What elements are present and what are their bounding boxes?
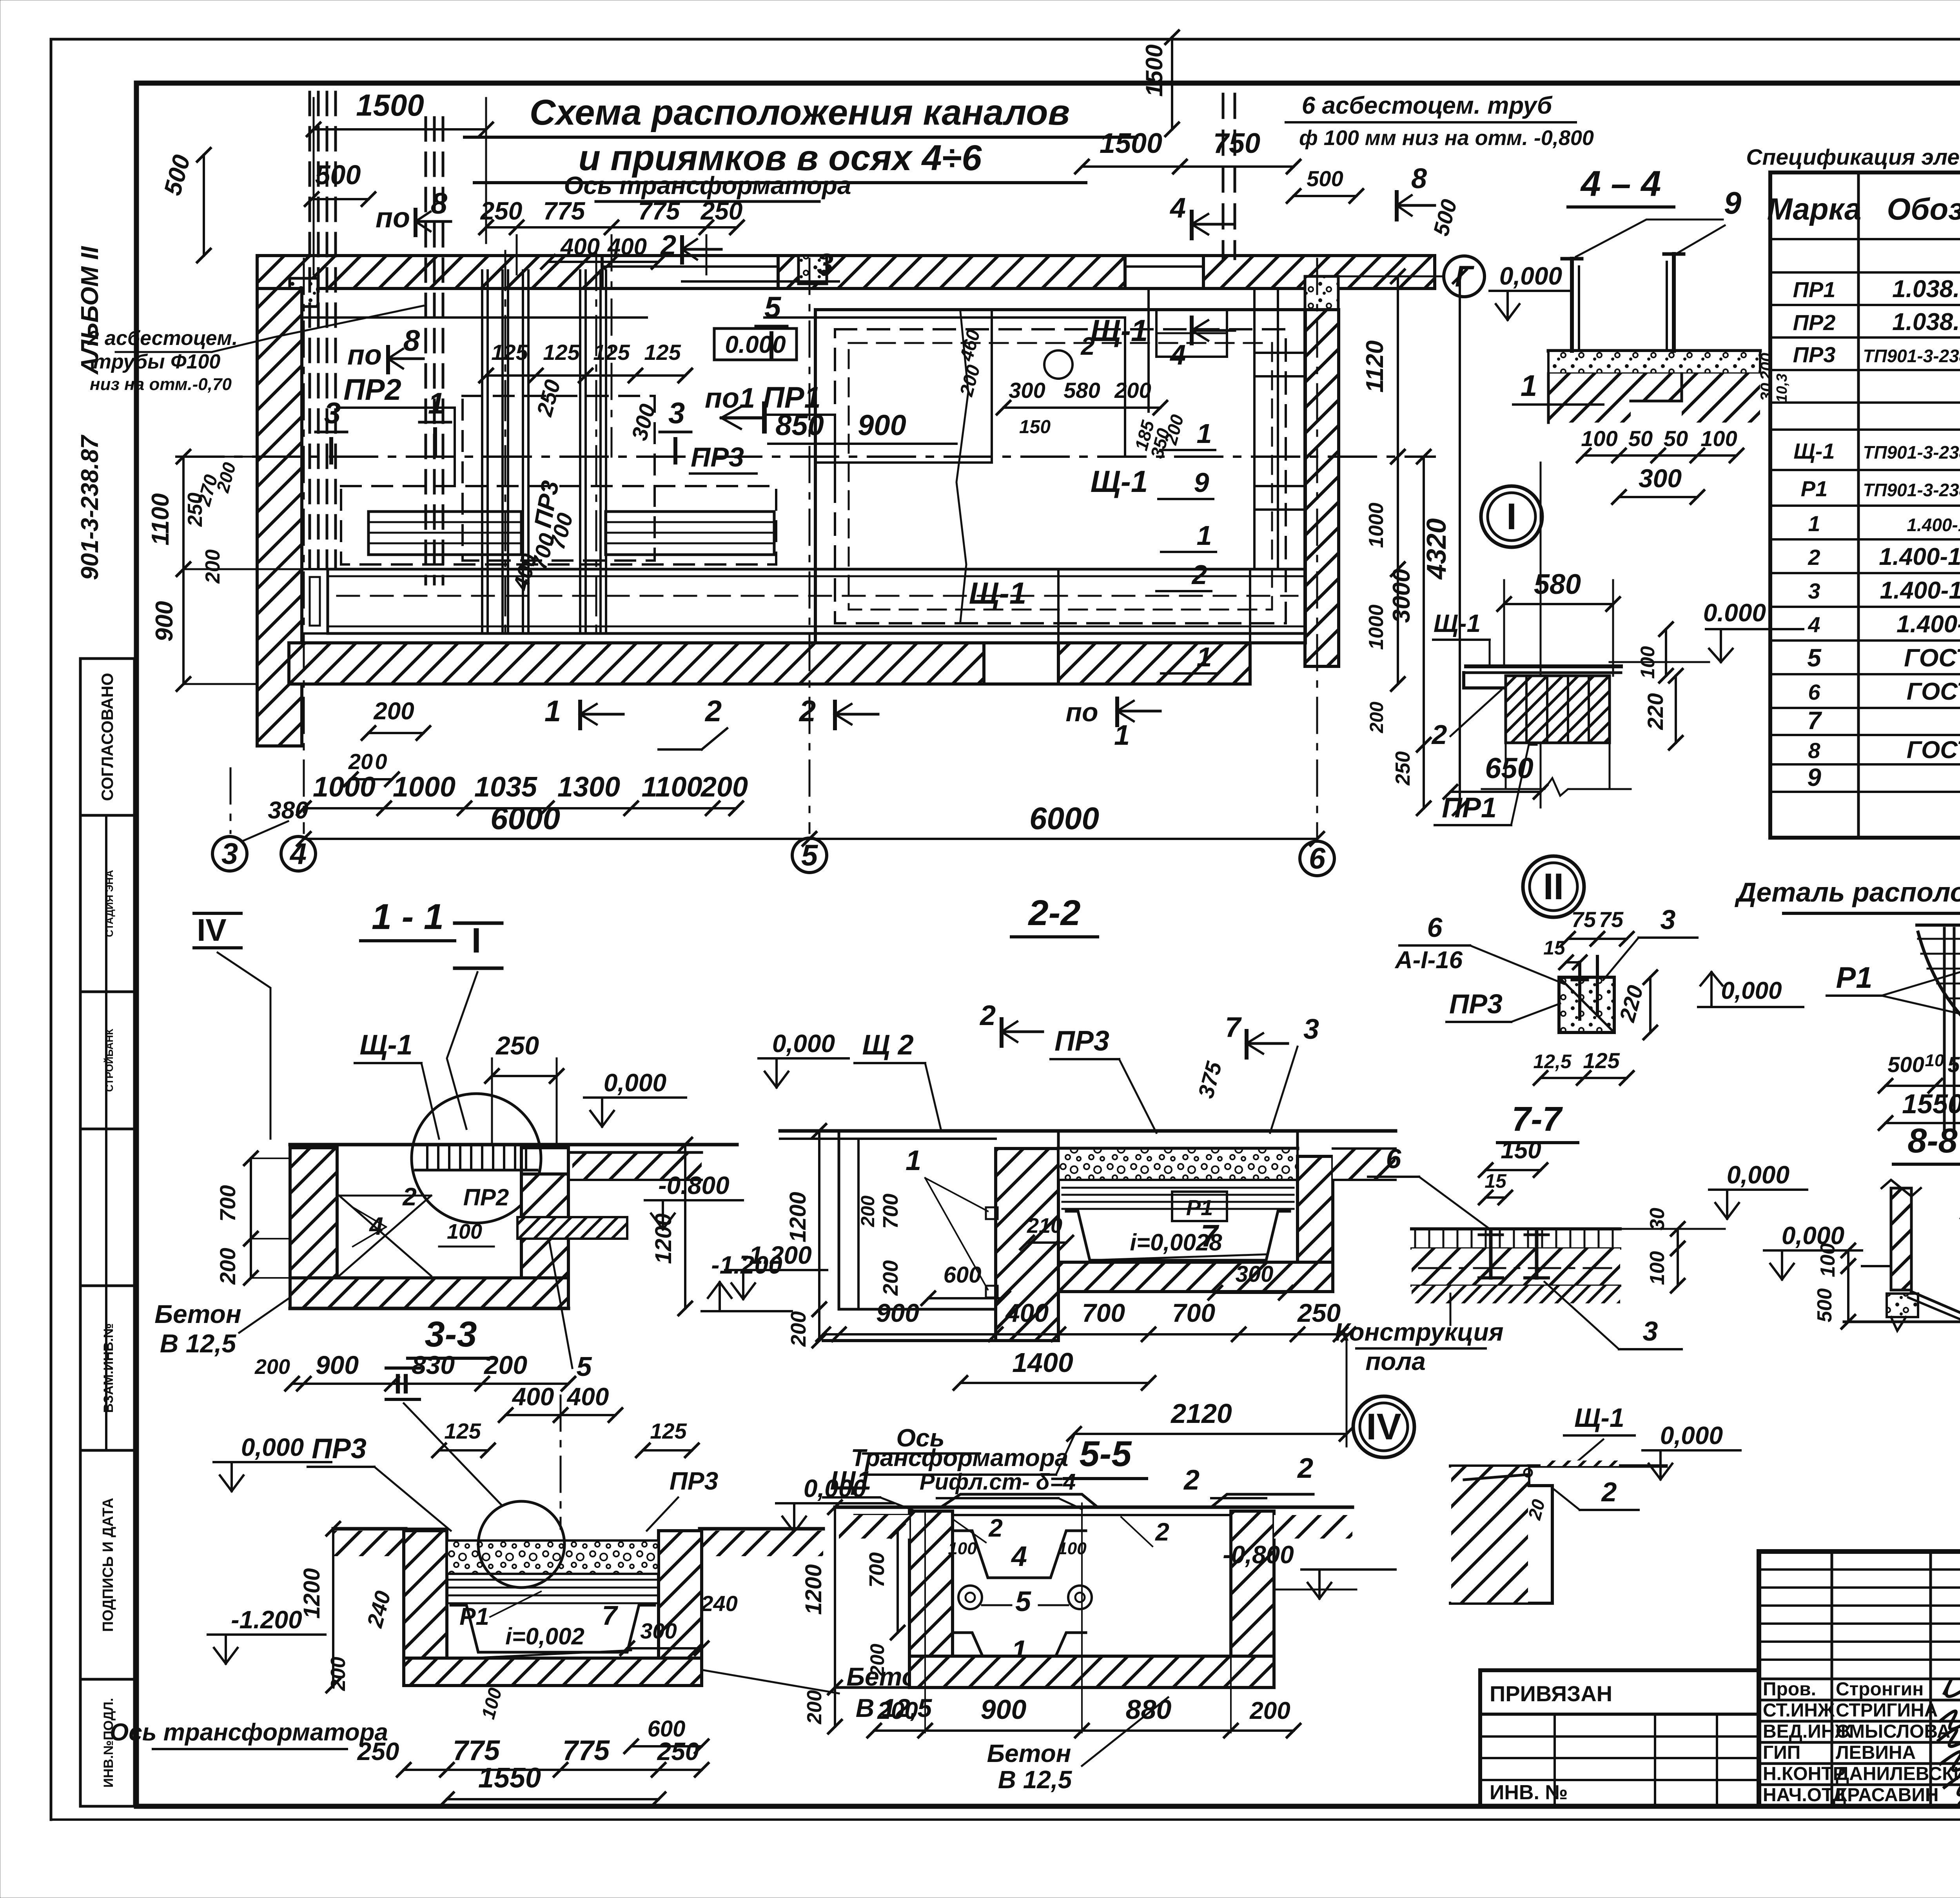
svg-text:1500: 1500	[356, 88, 424, 122]
svg-text:3: 3	[1661, 904, 1676, 935]
svg-text:ПР2: ПР2	[463, 1184, 509, 1210]
section 1-1 grate ticks	[426, 1147, 428, 1170]
svg-text:500: 500	[1947, 1052, 1960, 1077]
detail IV latch	[1464, 1475, 1527, 1480]
svg-text:400: 400	[1005, 1298, 1049, 1327]
svg-text:-0,800: -0,800	[1223, 1541, 1294, 1569]
section 2-2 floor lines	[780, 1129, 1396, 1133]
axis Г bubble	[1444, 256, 1485, 297]
svg-text:1: 1	[1114, 720, 1130, 751]
svg-text:900: 900	[876, 1298, 919, 1327]
section 2-2 flag 7 and 3	[1245, 1031, 1249, 1058]
plan section flag 3 right	[673, 439, 677, 463]
svg-text:ТП901-3-238.87-КЖИ.66.0.0.0: ТП901-3-238.87-КЖИ.66.0.0.0	[1863, 480, 1960, 500]
svg-text:ПР2: ПР2	[1793, 310, 1836, 335]
svg-text:6: 6	[1427, 912, 1443, 943]
section 3-3 ground floor lines	[333, 1527, 406, 1531]
detail II bubble	[1523, 856, 1584, 917]
svg-text:Н.КОНТР: Н.КОНТР	[1763, 1764, 1846, 1784]
svg-text:0,000: 0,000	[604, 1069, 666, 1097]
svg-text:1.038.1-1. Вып.1: 1.038.1-1. Вып.1	[1892, 276, 1960, 303]
svg-text:8: 8	[403, 324, 420, 357]
svg-text:II: II	[1543, 866, 1564, 907]
svg-text:Схема расположения каналов: Схема расположения каналов	[530, 93, 1070, 132]
svg-text:Обозначение: Обозначение	[1887, 192, 1960, 226]
spec table grid	[1770, 172, 1960, 838]
svg-text:400: 400	[560, 234, 600, 260]
detail IV bubble	[1353, 1396, 1414, 1457]
svg-text:10: 10	[1925, 1051, 1944, 1070]
svg-text:380: 380	[268, 797, 308, 824]
svg-text:3: 3	[324, 397, 341, 430]
svg-text:Трансформатора: Трансформатора	[851, 1444, 1068, 1472]
svg-text:В 12,5: В 12,5	[160, 1329, 237, 1358]
axis bubble 3	[212, 836, 247, 871]
plan pit outline left dashed	[463, 396, 655, 561]
svg-text:1550: 1550	[478, 1762, 541, 1794]
svg-text:Щ 2: Щ 2	[862, 1029, 913, 1061]
section 1-1 pipe 5 bar	[517, 1217, 627, 1239]
svg-text:Марка: Марка	[1767, 192, 1862, 226]
svg-text:9: 9	[1807, 763, 1821, 791]
svg-text:Щ-1: Щ-1	[1091, 464, 1148, 499]
svg-text:8: 8	[431, 187, 448, 220]
svg-text:Р1: Р1	[459, 1603, 489, 1630]
svg-text:100: 100	[1646, 1251, 1669, 1285]
svg-text:1: 1	[1808, 511, 1820, 536]
svg-text:3: 3	[1643, 1316, 1658, 1346]
section 2-2 flag 2	[1000, 1019, 1004, 1046]
svg-text:5: 5	[764, 291, 782, 324]
svg-text:Щ-1: Щ-1	[1434, 609, 1481, 637]
axis line 6	[1316, 259, 1318, 839]
svg-text:ПР3: ПР3	[1793, 342, 1836, 367]
svg-text:200: 200	[700, 771, 748, 803]
svg-text:3: 3	[221, 837, 238, 871]
svg-text:ДАНИЛЕВСКИ: ДАНИЛЕВСКИ	[1836, 1764, 1960, 1784]
plan concrete column A	[290, 278, 318, 307]
section 4-4 right angle element	[1664, 252, 1684, 256]
svg-text:200: 200	[201, 550, 224, 584]
title block signatures scribbles	[1938, 1679, 1960, 1795]
plan section flag 1	[433, 429, 437, 455]
sidebar stamp boxes	[80, 659, 134, 815]
svg-text:200: 200	[373, 698, 414, 725]
section 8-8 base line	[1844, 1321, 1960, 1323]
svg-text:7: 7	[1225, 1012, 1242, 1043]
axis line 4	[303, 259, 305, 833]
svg-text:580: 580	[1063, 378, 1100, 403]
section 5-5 cover plates	[941, 1494, 1098, 1507]
svg-text:Щ-1: Щ-1	[1793, 439, 1835, 463]
svg-text:200: 200	[787, 1311, 810, 1347]
section 1-1 inner X brace	[339, 1196, 431, 1276]
section 2-2 trough 7	[1066, 1211, 1290, 1260]
svg-text:0,000: 0,000	[1727, 1161, 1789, 1189]
section 7-7 mosaic band	[1414, 1229, 1416, 1248]
svg-text:-1.200: -1.200	[740, 1241, 811, 1269]
svg-text:250: 250	[657, 1737, 699, 1766]
plan bottom channel left box	[302, 569, 328, 633]
section 2-2 pit left thin wall	[838, 1131, 840, 1309]
svg-text:3: 3	[1808, 579, 1820, 603]
svg-text:ВЗАМ.ИНВ.№: ВЗАМ.ИНВ.№	[101, 1323, 116, 1413]
section 5-5 trough 1	[953, 1633, 1086, 1668]
svg-text:9: 9	[1194, 467, 1209, 498]
svg-text:1.400-15.В1.140-11: 1.400-15.В1.140-11	[1880, 577, 1960, 604]
svg-text:i=0,0028: i=0,0028	[1130, 1229, 1222, 1256]
svg-text:700: 700	[865, 1552, 889, 1588]
svg-text:2: 2	[1808, 545, 1820, 570]
svg-text:ГОСТ 5781-82: ГОСТ 5781-82	[1907, 678, 1960, 705]
svg-text:250: 250	[1392, 751, 1414, 786]
svg-text:Стронгин: Стронгин	[1836, 1679, 1924, 1700]
svg-text:3000: 3000	[1388, 569, 1415, 623]
svg-text:250: 250	[701, 197, 743, 225]
section 2-2 pit bottom and slab	[839, 1308, 996, 1311]
plan concrete column B	[799, 256, 827, 284]
svg-text:2: 2	[799, 695, 816, 728]
svg-text:580: 580	[1534, 569, 1581, 600]
svg-text:II: II	[394, 1368, 410, 1400]
svg-text:5: 5	[801, 839, 818, 872]
svg-text:2: 2	[1183, 1464, 1200, 1496]
svg-text:1000: 1000	[393, 771, 456, 803]
plan left wall hatched	[257, 289, 302, 746]
section 5-5 left wall hatch	[909, 1511, 953, 1688]
svg-text:100: 100	[948, 1539, 977, 1558]
svg-text:2: 2	[1297, 1453, 1313, 1484]
section 3-3 gravel layer	[447, 1541, 659, 1574]
section 2-2 gravel band	[1058, 1149, 1298, 1180]
svg-text:880: 880	[1126, 1694, 1172, 1725]
svg-text:1.038.1-1. Вып.1: 1.038.1-1. Вып.1	[1892, 308, 1960, 336]
section 3-3 pit right wall	[659, 1531, 702, 1682]
section 5-5 floor slab hatch	[909, 1656, 1274, 1688]
svg-text:4: 4	[1808, 612, 1820, 637]
plan pit grate right	[606, 512, 774, 555]
plan top wall hatched band	[257, 256, 602, 289]
plan elevation 0.000 boxed	[714, 328, 797, 360]
svg-text:901-3-238.87: 901-3-238.87	[76, 435, 103, 580]
svg-text:IV: IV	[1366, 1406, 1401, 1448]
svg-text:2: 2	[1191, 559, 1207, 590]
svg-text:1500: 1500	[1100, 128, 1162, 159]
svg-text:500: 500	[315, 160, 361, 190]
svg-text:ПР3: ПР3	[312, 1433, 367, 1464]
section 7-7 ground hatch	[1412, 1286, 1620, 1303]
svg-text:1500: 1500	[1141, 44, 1167, 96]
section 3-3 trough 7	[451, 1605, 655, 1652]
svg-text:ПРИВЯЗАН: ПРИВЯЗАН	[1490, 1681, 1612, 1706]
plan right wall dashed pipes	[1222, 94, 1225, 259]
svg-text:ПР3: ПР3	[1449, 989, 1503, 1019]
svg-text:1: 1	[1521, 369, 1537, 403]
svg-text:300: 300	[1009, 378, 1045, 403]
svg-text:200: 200	[858, 1196, 878, 1227]
svg-text:250: 250	[495, 1031, 539, 1060]
svg-text:I: I	[471, 921, 481, 960]
svg-text:Ось трансформатора: Ось трансформатора	[110, 1719, 388, 1746]
section 2-2 channel slab hatch	[1058, 1262, 1333, 1292]
svg-text:7: 7	[602, 1600, 619, 1631]
svg-text:0: 0	[278, 1355, 290, 1379]
plan section flag 4 top	[1190, 212, 1194, 238]
svg-text:500: 500	[1813, 1288, 1836, 1323]
svg-text:6: 6	[1386, 1143, 1402, 1174]
svg-text:4 – 4: 4 – 4	[1580, 164, 1661, 204]
detail II lintel PR1 hatched	[1506, 676, 1610, 743]
svg-text:200: 200	[483, 1350, 527, 1379]
svg-text:6000: 6000	[1029, 801, 1099, 836]
plan flag 8 right	[1395, 192, 1399, 220]
pr3 anchor block	[1559, 977, 1614, 1032]
svg-text:400: 400	[566, 1383, 609, 1411]
svg-text:Деталь расположения решеток Р1: Деталь расположения решеток Р1	[1735, 877, 1960, 907]
svg-text:ГОСТ 1839-80: ГОСТ 1839-80	[1904, 644, 1960, 672]
svg-text:Конструкция: Конструкция	[1335, 1318, 1504, 1346]
plan vertical asbestos pipes dashed group A	[309, 92, 311, 568]
svg-text:250: 250	[357, 1737, 399, 1766]
svg-text:1: 1	[1197, 642, 1212, 672]
svg-text:1035: 1035	[474, 771, 537, 803]
svg-text:А-I-16: А-I-16	[1394, 947, 1463, 974]
svg-text:0,000: 0,000	[772, 1029, 835, 1058]
svg-text:2: 2	[1155, 1518, 1169, 1546]
svg-text:2: 2	[704, 695, 722, 728]
svg-text:НАЧ.ОТД: НАЧ.ОТД	[1763, 1785, 1846, 1805]
svg-text:ПР3: ПР3	[691, 442, 744, 472]
svg-text:4: 4	[1169, 339, 1186, 371]
detail IV wall hatched	[1450, 1466, 1552, 1603]
svg-text:300: 300	[1236, 1261, 1274, 1287]
svg-text:125: 125	[491, 340, 528, 365]
svg-text:1.400-15.В1.430: 1.400-15.В1.430	[1896, 611, 1960, 638]
svg-text:1200: 1200	[299, 1568, 325, 1619]
svg-text:ПОДПИСЬ И ДАТА: ПОДПИСЬ И ДАТА	[100, 1498, 116, 1632]
svg-text:50: 50	[1628, 426, 1653, 451]
svg-text:75: 75	[1572, 907, 1596, 932]
svg-text:900: 900	[858, 409, 906, 441]
svg-text:5-5: 5-5	[1080, 1434, 1132, 1474]
title block main frame	[1759, 1551, 1960, 1806]
svg-text:2: 2	[660, 230, 676, 261]
svg-text:ПР1: ПР1	[1442, 792, 1497, 824]
svg-text:400: 400	[607, 234, 647, 260]
svg-text:по1: по1	[705, 383, 755, 414]
svg-text:низ на отм.-0,70: низ на отм.-0,70	[90, 375, 232, 394]
svg-text:240: 240	[701, 1591, 737, 1616]
section 5-5 dim lines vertical	[924, 1511, 926, 1733]
svg-text:Р1: Р1	[1186, 1195, 1213, 1220]
pr3 anchor bolts	[1578, 962, 1581, 1019]
section 5-5 right wall hatch	[1231, 1511, 1274, 1688]
svg-text:Бетон: Бетон	[154, 1299, 241, 1328]
plan vertical asbestos pipes dashed group B	[425, 118, 427, 584]
plan pit grate left	[368, 512, 521, 555]
svg-text:пола: пола	[1365, 1347, 1426, 1375]
svg-text:200: 200	[1367, 702, 1387, 733]
detail II bottom break line	[1482, 778, 1631, 796]
svg-text:1000: 1000	[1365, 503, 1388, 548]
section 5-5 top lines	[835, 1506, 1352, 1509]
plan top right room inner walls	[1124, 318, 1126, 457]
svg-text:30: 30	[1757, 383, 1775, 401]
svg-text:Щ-1: Щ-1	[359, 1029, 412, 1061]
plan room break line	[956, 312, 968, 621]
svg-text:1100: 1100	[147, 493, 174, 545]
svg-text:200: 200	[327, 1657, 350, 1691]
svg-text:15: 15	[1543, 937, 1566, 959]
svg-text:1: 1	[1197, 520, 1212, 551]
svg-text:1: 1	[1197, 418, 1212, 449]
svg-text:6: 6	[1309, 842, 1326, 875]
svg-text:900: 900	[151, 601, 178, 641]
svg-text:Ось трансформатора: Ось трансформатора	[564, 171, 851, 200]
svg-text:1: 1	[544, 695, 561, 728]
P1 detail vertical bars	[1943, 928, 1946, 1132]
section 1-1 ground right hatch	[572, 1152, 702, 1180]
svg-text:2: 2	[988, 1514, 1003, 1542]
svg-text:ГИП: ГИП	[1763, 1742, 1800, 1763]
svg-text:125: 125	[593, 340, 630, 365]
section 5-5 pipes 5	[958, 1586, 982, 1609]
svg-text:2: 2	[979, 1000, 996, 1031]
svg-text:700: 700	[1172, 1298, 1215, 1327]
svg-text:700: 700	[879, 1194, 902, 1229]
svg-text:125: 125	[644, 340, 681, 365]
section 8-8 anchor block	[1887, 1294, 1918, 1317]
svg-text:100: 100	[1581, 426, 1617, 451]
svg-text:200: 200	[1114, 378, 1151, 403]
svg-text:8-8: 8-8	[1907, 1121, 1957, 1160]
svg-text:200: 200	[1249, 1697, 1290, 1724]
svg-text:15: 15	[1485, 1170, 1507, 1192]
svg-text:750: 750	[1213, 128, 1260, 159]
svg-text:1550: 1550	[1902, 1089, 1960, 1119]
section 3-3 grate lines	[447, 1579, 659, 1581]
svg-text:2120: 2120	[1170, 1398, 1232, 1429]
svg-text:1200: 1200	[651, 1213, 676, 1264]
svg-text:150: 150	[1501, 1137, 1541, 1164]
svg-text:6 асбестоцем. труб: 6 асбестоцем. труб	[1302, 92, 1553, 119]
svg-text:3: 3	[817, 248, 833, 281]
svg-text:СОГЛАСОВАНО: СОГЛАСОВАНО	[98, 673, 116, 801]
svg-text:Щ-1: Щ-1	[1091, 313, 1148, 348]
section 8-8 strut	[1911, 1292, 1960, 1321]
svg-text:200: 200	[215, 1248, 240, 1285]
plan transformer axis dash-dot line	[176, 455, 1435, 458]
svg-text:250: 250	[1297, 1298, 1341, 1327]
plan channel cluster left	[481, 270, 483, 631]
plan bottom wall hatched band	[289, 643, 984, 684]
detail II steel plate	[1466, 664, 1621, 668]
svg-text:IV: IV	[197, 913, 227, 947]
svg-text:4: 4	[1011, 1541, 1027, 1572]
svg-text:1.400-15.В1.550-07: 1.400-15.В1.550-07	[1879, 543, 1960, 570]
svg-text:ГОСТ 3262-75: ГОСТ 3262-75	[1907, 737, 1960, 764]
plan concrete column C	[1305, 276, 1338, 310]
svg-text:3: 3	[668, 397, 685, 430]
plan wall inner face line	[289, 316, 647, 319]
svg-text:1: 1	[428, 387, 445, 420]
svg-text:850: 850	[775, 409, 824, 441]
plan channel cluster right	[579, 270, 581, 631]
svg-text:200: 200	[877, 1697, 918, 1724]
plan section flag 5	[769, 333, 773, 359]
svg-text:700: 700	[215, 1185, 240, 1221]
plan section flag 4 lower	[1190, 318, 1194, 343]
svg-text:-0.800: -0.800	[658, 1171, 729, 1199]
svg-text:Р1: Р1	[1836, 961, 1873, 994]
section 4-4 left angle element	[1562, 257, 1582, 261]
svg-text:775: 775	[638, 197, 681, 225]
svg-text:В 12,5: В 12,5	[998, 1766, 1073, 1794]
svg-text:5: 5	[577, 1351, 592, 1382]
section 7-7 bolts	[1489, 1231, 1493, 1278]
svg-text:775: 775	[453, 1735, 500, 1766]
svg-text:1120: 1120	[1361, 340, 1388, 392]
svg-text:3-3: 3-3	[425, 1314, 477, 1354]
plan room inner panel lines	[815, 461, 992, 464]
plan top right channel lines	[1253, 289, 1256, 569]
plan right wall at axis 6 hatched	[1305, 310, 1339, 666]
svg-text:75: 75	[1599, 907, 1624, 932]
svg-text:Рифл.ст- δ=4: Рифл.ст- δ=4	[920, 1469, 1076, 1495]
svg-text:0,000: 0,000	[241, 1433, 304, 1461]
svg-text:900: 900	[316, 1350, 359, 1379]
svg-text:2: 2	[402, 1183, 417, 1211]
section 1-1 right wall hatch	[521, 1174, 568, 1278]
svg-text:210: 210	[1027, 1214, 1062, 1238]
svg-text:6000: 6000	[490, 801, 560, 836]
svg-text:9: 9	[1724, 185, 1742, 220]
svg-text:100: 100	[1817, 1243, 1839, 1277]
section 5-5 ground hatch right	[1274, 1515, 1352, 1539]
svg-text:7-7: 7-7	[1512, 1100, 1563, 1138]
svg-text:100: 100	[1700, 426, 1737, 451]
title block names rows	[1759, 1678, 1960, 1680]
svg-text:ТП901-3-238.87-КЖИ.65.0.0.0: ТП901-3-238.87-КЖИ.65.0.0.0	[1863, 346, 1960, 366]
svg-text:Щ-1: Щ-1	[969, 576, 1026, 610]
svg-text:ИНВ. №: ИНВ. №	[1490, 1781, 1568, 1804]
section 1-1 left wall hatch	[290, 1148, 337, 1305]
svg-text:Р1: Р1	[1801, 476, 1828, 501]
detail IV plate	[1529, 1464, 1666, 1468]
section 4-4 floor speckled band	[1548, 349, 1760, 353]
svg-text:125: 125	[543, 340, 580, 365]
privyazan table	[1480, 1670, 1759, 1806]
svg-text:Спецификация элементов к схеме: Спецификация элементов к схеме расположе…	[1746, 145, 1960, 170]
svg-text:ПР2: ПР2	[343, 373, 401, 406]
svg-text:1.400-15.В1.120-41: 1.400-15.В1.120-41	[1907, 515, 1960, 535]
svg-text:300: 300	[1639, 464, 1682, 493]
section 2-2 central hatched wall	[996, 1149, 1058, 1341]
svg-text:200: 200	[866, 1644, 888, 1677]
plan long bottom channel	[328, 568, 1305, 571]
svg-text:3: 3	[1303, 1014, 1319, 1045]
svg-text:Щ1: Щ1	[830, 1466, 871, 1495]
svg-text:по: по	[347, 339, 382, 371]
P1 detail horizontal grate lines	[1918, 938, 1960, 940]
svg-text:СМЫСЛОВА: СМЫСЛОВА	[1836, 1721, 1950, 1742]
svg-text:250: 250	[480, 197, 523, 225]
svg-text:4: 4	[1169, 192, 1186, 224]
svg-text:1100: 1100	[642, 771, 702, 803]
svg-text:трубы Ф100: трубы Ф100	[93, 350, 221, 373]
section 7-7 floor top line	[1412, 1227, 1620, 1230]
plan big room axes 5-6	[815, 310, 1305, 643]
